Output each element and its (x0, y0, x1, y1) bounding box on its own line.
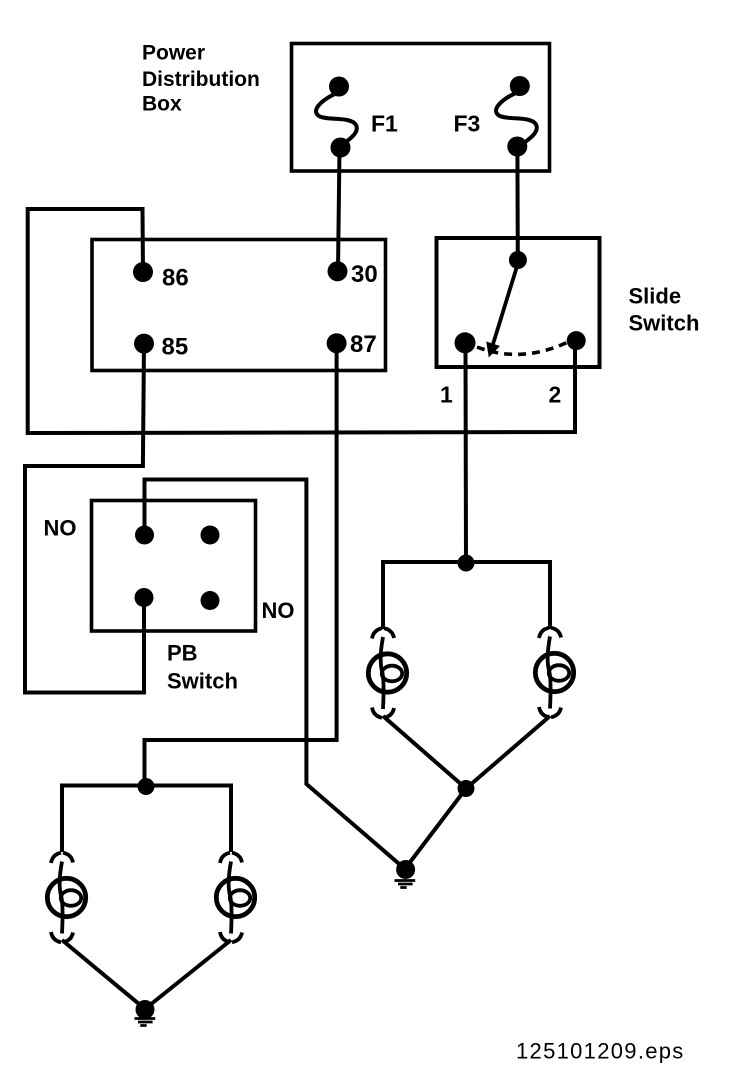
svg-text:Box: Box (142, 93, 182, 116)
slide switch common terminal (509, 251, 527, 269)
PB switch contact top-right (201, 526, 220, 545)
PB switch contact bottom-left (135, 588, 154, 607)
svg-text:NO: NO (262, 598, 295, 623)
ground 2 (135, 1000, 156, 1026)
lower lamp pair bus wire (62, 786, 231, 853)
svg-text:2: 2 (549, 382, 562, 408)
power distribution box outline (292, 44, 550, 172)
wire lamp L4 to ground 2 (145, 940, 231, 1009)
slide switch terminal 1 (455, 332, 476, 353)
wire 86 loop to slide terminal 2 (28, 209, 575, 433)
PB switch contact bottom-right (201, 591, 220, 610)
svg-text:125101209.eps: 125101209.eps (516, 1039, 685, 1064)
svg-text:F3: F3 (454, 111, 481, 137)
svg-text:85: 85 (162, 334, 189, 361)
label Power Distribution Box (142, 42, 260, 116)
svg-text:30: 30 (351, 261, 378, 288)
wire PB top-left to ground 1 (145, 480, 406, 870)
fuse F3 (496, 76, 537, 157)
wire lamp L1 to junction (383, 716, 466, 789)
lamp L2 (535, 628, 573, 718)
svg-text:Distribution: Distribution (142, 68, 260, 91)
wire lamp L2 to junction (466, 716, 550, 789)
svg-text:86: 86 (162, 265, 189, 292)
svg-text:Slide: Slide (629, 284, 682, 309)
svg-text:NO: NO (44, 516, 77, 541)
relay terminal 30 (328, 261, 348, 281)
svg-text:Power: Power (142, 42, 205, 65)
label Slide Switch (629, 284, 700, 336)
junction right lamp pair (458, 555, 475, 572)
wire F1 to relay 30 (338, 148, 340, 271)
slide switch actuator arrow (486, 267, 517, 358)
svg-text:1: 1 (440, 382, 453, 408)
svg-text:Switch: Switch (629, 311, 700, 336)
ground 1 (395, 860, 416, 888)
wire 85 loop to PB switch lower-left (25, 344, 144, 693)
lamp L3 (47, 853, 85, 943)
lamp L1 (368, 628, 406, 718)
wire junction to ground 1 (406, 789, 466, 869)
junction right pair to ground (458, 780, 475, 797)
label PB Switch (167, 641, 238, 694)
relay terminal 87 (327, 333, 347, 353)
wire lamp L3 to ground 2 (62, 940, 145, 1009)
fuse F1 (316, 77, 357, 158)
PB switch contact top-left (135, 526, 154, 545)
PB switch box outline (92, 501, 256, 632)
relay terminal 86 (133, 262, 153, 282)
relay terminal 85 (134, 334, 154, 354)
svg-text:PB: PB (167, 641, 198, 666)
relay box outline (92, 240, 386, 371)
svg-text:Switch: Switch (167, 669, 238, 694)
svg-text:87: 87 (350, 331, 377, 358)
slide switch terminal 2 (567, 331, 586, 350)
wire slide terminal 1 to right lamp junction (464, 343, 469, 563)
slide switch box outline (437, 238, 600, 367)
slide switch dashed travel arc (477, 342, 568, 354)
wire F3 to slide switch common (515, 147, 519, 260)
junction lower lamp pair (138, 778, 155, 795)
lamp L4 (216, 853, 254, 943)
right lamp pair bus wire (383, 562, 550, 629)
svg-text:F1: F1 (371, 111, 398, 137)
wire 87 to lower lamp junction (145, 344, 337, 787)
